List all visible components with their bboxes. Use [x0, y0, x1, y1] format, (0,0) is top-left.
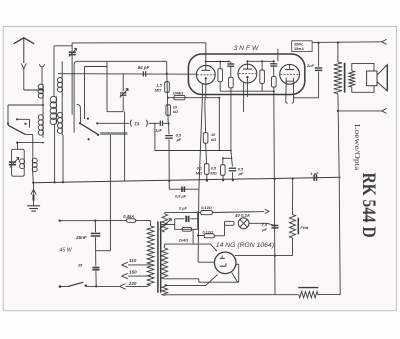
- wire L2 bottom to ground rail: [54, 124, 56, 183]
- svg-text:2nF: 2nF: [306, 63, 315, 68]
- resistor grid leak 2: [230, 66, 232, 77]
- svg-text:350V,: 350V,: [294, 42, 303, 46]
- output transformer secondary: [349, 71, 355, 87]
- wire rail2 to grid rail link: [166, 61, 168, 73]
- terminal hook (earth socket): [40, 64, 45, 67]
- wire HV top to rectifier: [164, 244, 166, 248]
- wire antenna to coil: [24, 89, 43, 91]
- heater winding with tap arrow: [162, 214, 168, 232]
- wire left vertical to switch: [7, 105, 9, 124]
- terminal 150 tap: [122, 273, 128, 278]
- capacitor 64pF: [142, 71, 144, 76]
- wire below gang bar to HT rail: [124, 112, 126, 182]
- coil L1 upper winding: [42, 84, 44, 138]
- capacitor coupling C2: [270, 63, 277, 65]
- wire rectifier left (heater bus): [198, 261, 214, 263]
- wire L3 top to bus: [61, 61, 63, 77]
- node TA junction: [168, 122, 170, 124]
- wire anode link V2-V3: [247, 60, 273, 62]
- trimmer capacitor C-ant: [71, 43, 73, 51]
- wire U-box bottom: [107, 111, 123, 113]
- coil T2 primary: [23, 159, 25, 169]
- wire trimmer down to switch: [71, 55, 73, 114]
- capacitor 1uF (TA coupling): [149, 122, 160, 124]
- wire V2 grid riser: [230, 91, 232, 150]
- coil T2 secondary: [32, 158, 34, 170]
- wire box top stem: [17, 143, 19, 150]
- svg-text:3NFW: 3NFW: [234, 45, 260, 52]
- wire switch contact L: [17, 118, 29, 120]
- wire V1 cathode down: [205, 84, 207, 98]
- box 350V 35mA: [292, 41, 312, 52]
- svg-text:150: 150: [129, 269, 137, 274]
- wire V3 heater leads: [285, 81, 287, 102]
- ground rail (chassis bus): [33, 177, 340, 182]
- capacitor 2nF: [318, 43, 320, 67]
- wire antenna lead down: [23, 69, 25, 90]
- svg-text:1µF: 1µF: [155, 129, 162, 133]
- terminal heater arrow 1: [265, 209, 269, 213]
- capacitor coupling C1: [227, 63, 234, 65]
- svg-text:MΩ: MΩ: [210, 170, 216, 175]
- terminal TA: [130, 120, 131, 127]
- rectifier tube 14NG: [214, 252, 236, 274]
- wire V2 cathode leads: [243, 83, 245, 112]
- wire rect heater bottom to bus: [164, 294, 166, 297]
- capacitor 25nF upper: [94, 221, 96, 233]
- connector output top right: [382, 39, 387, 44]
- terminal 220 tap: [119, 284, 125, 290]
- rectifier heater winding: [162, 285, 168, 296]
- resistor voltage dropper: [298, 287, 318, 289]
- wire x167 from grid rail down: [167, 74, 168, 124]
- node L1 tap / antenna junction: [42, 89, 44, 91]
- tube V3 (output section): [280, 64, 300, 84]
- svg-text:25nF: 25nF: [75, 235, 87, 240]
- capacitor 0.8uF: [168, 181, 170, 189]
- resistor grid leak 3: [273, 66, 275, 77]
- wire L3 bottom to ground rail: [62, 135, 64, 183]
- band switch S1a lever: [8, 125, 25, 134]
- HV winding: [162, 248, 168, 279]
- mains transformer primary: [150, 221, 152, 227]
- wire speaker loop: [352, 63, 374, 92]
- loudspeaker: [367, 71, 377, 86]
- resistor 0.5 Mohm: [223, 157, 233, 159]
- svg-text:µF: µF: [176, 137, 182, 142]
- wire gang line to mains: [96, 250, 111, 252]
- wire y66.5 branch: [85, 66, 108, 68]
- svg-text:MΩ: MΩ: [196, 170, 202, 175]
- coil L1 lower winding: [38, 115, 43, 120]
- wire x278 stub: [277, 49, 279, 62]
- capacitor 25nF lower: [92, 267, 99, 269]
- wire field coil to rectifier: [292, 238, 294, 256]
- wire envelope inner bottom bus: [220, 90, 274, 92]
- svg-text:64 pF: 64 pF: [138, 65, 150, 70]
- svg-text:4V 0,3A: 4V 0,3A: [234, 213, 250, 218]
- wire grid rail y73.7 (to V1 grid): [58, 73, 197, 76]
- svg-text:RK 544 D: RK 544 D: [358, 173, 379, 238]
- capacitor 0.5uF (decoupling): [230, 150, 232, 152]
- wire bypass loop: [154, 123, 156, 150]
- wire y142.6 link: [17, 142, 43, 144]
- svg-text:0,8 µF: 0,8 µF: [175, 194, 187, 199]
- svg-text:µF: µF: [261, 227, 267, 232]
- wire rectifier output: [236, 263, 239, 265]
- resistor 0.1 Mohm: [204, 164, 209, 175]
- tube V1 (triode section 1): [196, 65, 215, 84]
- svg-text:25: 25: [77, 262, 83, 267]
- hum RC box: [175, 212, 198, 229]
- svg-text:1 µF: 1 µF: [310, 171, 319, 176]
- resistor hum: [182, 227, 191, 231]
- node bias junction: [167, 97, 169, 99]
- wire mains input: [59, 220, 126, 222]
- svg-text:kΩ: kΩ: [173, 109, 178, 114]
- wire V3 grid long drop: [273, 91, 276, 223]
- antenna: [14, 38, 35, 44]
- connector output lower right: [382, 108, 387, 113]
- mains switch: [59, 286, 68, 288]
- wire second rail to connector: [338, 110, 382, 112]
- wire V3 lead to 2nF return: [294, 97, 319, 99]
- resistor anode load 2: [261, 61, 263, 70]
- svg-text:2x4Ω: 2x4Ω: [178, 237, 189, 242]
- wire V1 cathode to divider: [204, 98, 206, 105]
- wire y61 to switch vertical: [73, 65, 75, 133]
- terminal 110 tap: [122, 262, 128, 267]
- svg-text:2 µF: 2 µF: [178, 205, 187, 210]
- svg-text:0,45A: 0,45A: [123, 214, 134, 219]
- wire V1 cathode chain: [204, 105, 207, 133]
- wire bottom return: [165, 294, 299, 296]
- wire bus down x107: [106, 61, 108, 111]
- field coil Feld: [292, 179, 294, 215]
- svg-text:110: 110: [129, 258, 137, 263]
- wire winding tap to box: [162, 224, 175, 226]
- coil L3 upper winding: [61, 78, 63, 136]
- resistor 10 kohm (V1 grid leak): [166, 105, 171, 116]
- capacitor 7.5uF: [272, 225, 279, 227]
- trimmer capacitor padder box: [12, 149, 25, 176]
- wire T2 secondary to ground rail: [32, 170, 35, 183]
- wire heater bus: [199, 97, 203, 188]
- output transformer core: [344, 63, 346, 93]
- svg-text:45 W: 45 W: [59, 248, 72, 254]
- svg-text:35mA: 35mA: [294, 47, 304, 51]
- band switch S1b lever: [80, 123, 99, 135]
- svg-text:220: 220: [128, 281, 137, 286]
- capacitor 0.5uF: [168, 123, 170, 134]
- resistor 10 kohm (second): [203, 133, 208, 144]
- wire box to HV wire: [192, 229, 194, 244]
- wire gang line down: [109, 135, 111, 251]
- capacitor 1uF (in HT rail): [313, 175, 315, 181]
- wire top rail: [72, 42, 206, 44]
- svg-text:0,12Ω: 0,12Ω: [201, 205, 212, 210]
- svg-text:10MΩ: 10MΩ: [173, 90, 184, 95]
- wire lever bottom to coil T2: [25, 134, 33, 136]
- svg-text:MΩ: MΩ: [155, 87, 161, 92]
- svg-text:µF: µF: [238, 171, 244, 176]
- svg-text:14 NG (RGN 1064): 14 NG (RGN 1064): [216, 242, 274, 249]
- wire TA pickup: [97, 122, 129, 124]
- antenna down-arrow connector: [21, 63, 26, 68]
- trimmer capacitor C-osc (gang section 2): [122, 74, 124, 92]
- wire left branch y105: [8, 104, 43, 106]
- svg-text:TA: TA: [134, 122, 140, 127]
- capacitor 2uF: [185, 216, 187, 222]
- wire grid bus y61: [74, 61, 167, 64]
- wire HT to output transformer: [318, 42, 320, 44]
- resistor 0.12 ohm (heater 2): [197, 234, 199, 236]
- wire S1b feed: [77, 104, 81, 122]
- coil L3 lower winding: [57, 112, 62, 117]
- resistor 0.12 ohm (heater 1): [165, 211, 201, 213]
- tube V2 (triode section 2): [238, 64, 257, 83]
- ground symbol: [33, 183, 35, 206]
- resistor anode load 1: [219, 62, 221, 69]
- resistor 10 Mohm: [168, 97, 219, 99]
- svg-text:Loewe/Opta: Loewe/Opta: [353, 124, 362, 171]
- coil L2: [55, 96, 57, 124]
- wire anode link V1-V2: [206, 61, 229, 63]
- tube 3NFW envelope: [188, 54, 304, 95]
- mains transformer core: [157, 221, 159, 292]
- output transformer primary: [337, 43, 339, 62]
- svg-text:0,12Ω: 0,12Ω: [202, 230, 213, 235]
- wire primary down (B+ vertical): [338, 94, 339, 178]
- resistor 1.5 Mohm: [165, 82, 170, 93]
- svg-text:kΩ: kΩ: [211, 137, 216, 142]
- svg-text:Feld: Feld: [300, 226, 308, 230]
- resistor lamp series: [224, 221, 234, 225]
- fuse 0.45A: [127, 219, 136, 223]
- wire rectifier heater: [164, 285, 166, 286]
- gang coupling bar: [100, 132, 127, 135]
- wire HV bottom: [164, 278, 166, 280]
- wire HT rail dots: [274, 178, 276, 180]
- wire L2 top to trimmer line: [53, 46, 55, 97]
